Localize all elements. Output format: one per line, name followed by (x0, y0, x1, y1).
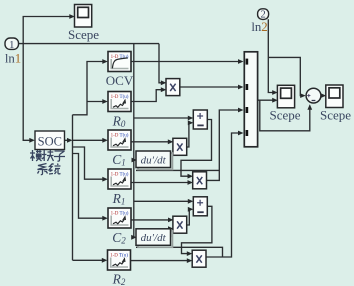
svg-text:ln1: ln1 (5, 52, 21, 66)
svg-text:Scepe: Scepe (320, 108, 351, 123)
svg-text:SOC: SOC (38, 135, 62, 149)
svg-text:R1: R1 (112, 191, 126, 207)
svg-text:Scepe: Scepe (269, 108, 300, 123)
svg-text:ln2: ln2 (251, 20, 267, 34)
svg-text:2: 2 (260, 10, 265, 21)
svg-text:R0: R0 (112, 114, 126, 130)
svg-text:OCV: OCV (106, 73, 134, 88)
svg-text:1: 1 (9, 39, 15, 51)
svg-text:R2: R2 (112, 272, 126, 286)
svg-text:Scepe: Scepe (68, 27, 99, 42)
svg-text:C2: C2 (112, 230, 126, 246)
svg-text:C1: C1 (112, 152, 126, 168)
